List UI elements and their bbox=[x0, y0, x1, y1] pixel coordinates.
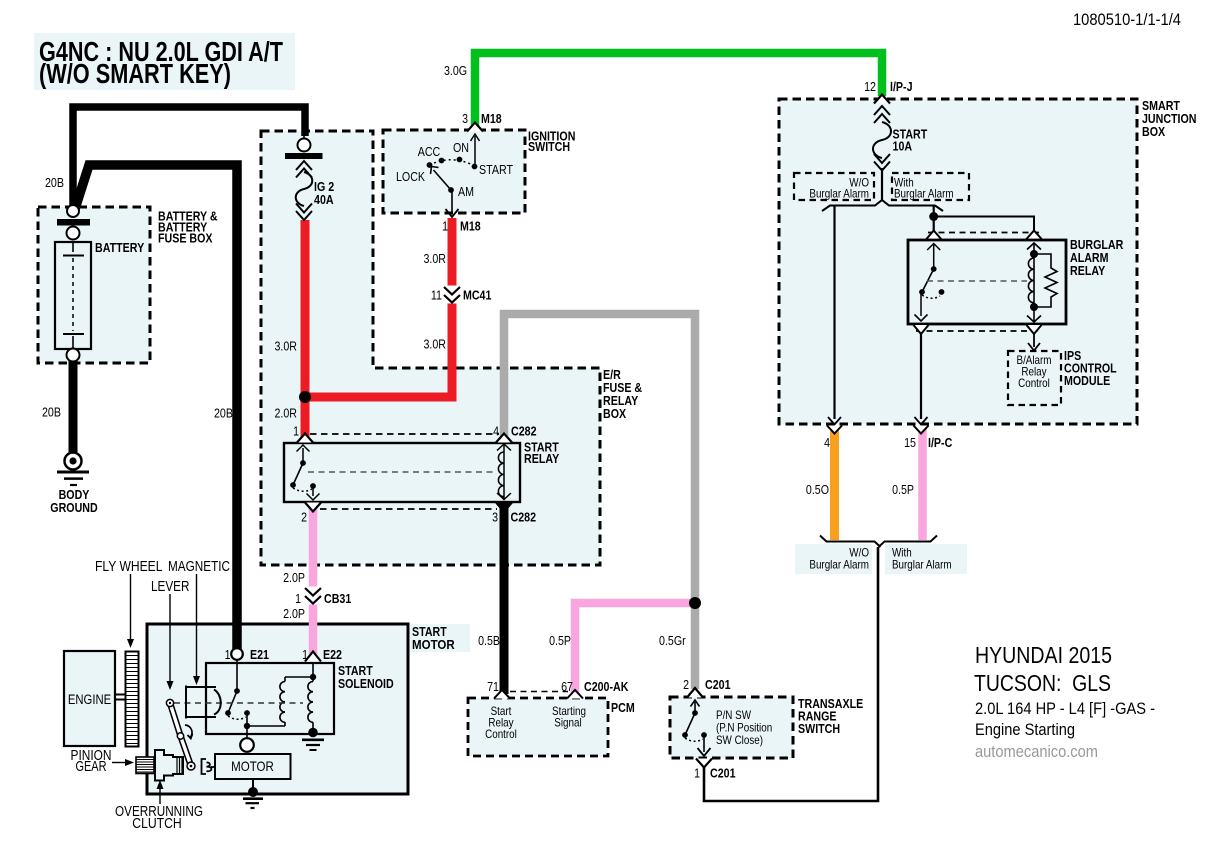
svg-text:C201: C201 bbox=[705, 677, 731, 692]
svg-text:1: 1 bbox=[694, 766, 700, 781]
svg-text:1: 1 bbox=[302, 647, 308, 662]
engine shaft lines bbox=[115, 695, 126, 700]
wire 0.5P pink junction to PCM pin 67 bbox=[575, 603, 695, 694]
svg-text:20B: 20B bbox=[214, 406, 233, 421]
wire 0.5O orange SJB pin4 bbox=[830, 428, 839, 540]
svg-text:4: 4 bbox=[493, 424, 499, 439]
svg-text:RELAY: RELAY bbox=[1070, 263, 1105, 278]
svg-text:M18: M18 bbox=[481, 111, 502, 126]
svg-text:GEAR: GEAR bbox=[76, 759, 107, 775]
label arrow lever bbox=[167, 594, 174, 690]
svg-text:3: 3 bbox=[462, 111, 468, 126]
SJB left branch wire to pin 4 bbox=[833, 206, 835, 420]
start motor pin E22 chevron bbox=[305, 652, 321, 662]
svg-text:12: 12 bbox=[864, 79, 876, 94]
svg-text:MOTOR: MOTOR bbox=[412, 637, 455, 652]
smart junction box bbox=[779, 99, 1137, 424]
lever rod bbox=[166, 699, 195, 770]
burglar alarm relay pin chevron left upper bbox=[926, 231, 942, 240]
svg-text:2: 2 bbox=[301, 510, 307, 525]
svg-text:Burglar Alarm: Burglar Alarm bbox=[894, 187, 954, 201]
label arrow pinion gear bbox=[112, 759, 134, 766]
SJB With burglar alarm dashed box bbox=[892, 173, 969, 200]
svg-text:C282: C282 bbox=[511, 510, 537, 525]
svg-text:3.0R: 3.0R bbox=[424, 251, 447, 266]
burglar alarm relay switch bbox=[915, 244, 945, 322]
wire 3.0R red ignition AM down to junction bbox=[448, 218, 457, 401]
svg-text:E22: E22 bbox=[323, 647, 342, 662]
start relay C282 upper connector dashed line bbox=[310, 433, 499, 435]
svg-text:Control: Control bbox=[1018, 376, 1050, 390]
burglar alarm relay coil bbox=[1027, 243, 1041, 322]
motor terminal circle bbox=[240, 738, 254, 752]
svg-text:(W/O SMART KEY): (W/O SMART KEY) bbox=[39, 58, 231, 89]
svg-text:0.5P: 0.5P bbox=[892, 482, 914, 497]
start relay C282 lower connector dashed line bbox=[320, 508, 497, 510]
svg-text:0.5P: 0.5P bbox=[549, 633, 571, 648]
svg-text:3.0R: 3.0R bbox=[424, 337, 447, 352]
SJB branch split shelves bbox=[822, 200, 943, 211]
svg-text:10A: 10A bbox=[893, 139, 913, 154]
svg-text:Control: Control bbox=[485, 727, 517, 741]
burglar alarm relay mechanical link dashed bbox=[927, 280, 1027, 282]
svg-text:3.0G: 3.0G bbox=[444, 63, 467, 78]
overrunning clutch body bbox=[155, 750, 183, 781]
fuse IG 2 40A terminal circle bbox=[298, 131, 311, 152]
battery top terminal circle bbox=[67, 205, 79, 217]
battery BATTERY box bbox=[55, 242, 91, 349]
svg-text:FUSE BOX: FUSE BOX bbox=[158, 230, 213, 245]
svg-text:2.0P: 2.0P bbox=[283, 606, 305, 621]
svg-text:MOTOR: MOTOR bbox=[231, 758, 274, 774]
svg-text:E21: E21 bbox=[250, 647, 269, 662]
svg-text:11: 11 bbox=[431, 288, 442, 303]
start relay pin 3 black chevron bbox=[496, 503, 512, 513]
wire 20B battery to IG2 fuse bbox=[73, 107, 305, 216]
battery cell symbol bbox=[63, 243, 84, 348]
burglar alarm relay resistor bbox=[1034, 254, 1057, 307]
SJB pin 4 chevron bbox=[827, 426, 842, 434]
start solenoid switch bbox=[225, 660, 250, 738]
burglar alarm relay connector dashed upper bbox=[928, 232, 1040, 234]
svg-text:0.5O: 0.5O bbox=[806, 482, 829, 497]
ignition switch contact dot ON bbox=[457, 157, 463, 163]
start relay mechanical link dashed bbox=[308, 471, 497, 473]
wire 3.0G green ignition to smart junction box bbox=[475, 53, 882, 127]
PCM C200-AK connector dashed line bbox=[510, 691, 568, 693]
PCM pin 67 chevron bbox=[567, 690, 583, 699]
start solenoid hold-in coil bbox=[308, 662, 313, 730]
transaxle pin 1 chevron bbox=[696, 759, 712, 768]
svg-text:Burglar Alarm: Burglar Alarm bbox=[892, 558, 952, 572]
wire 0.5B black start relay pin3 to PCM pin 71 bbox=[500, 508, 509, 694]
SJB wire fuse to split bbox=[881, 168, 883, 200]
svg-text:SOLENOID: SOLENOID bbox=[338, 676, 394, 691]
svg-text:20B: 20B bbox=[45, 175, 64, 190]
battery & battery fuse box bbox=[38, 207, 150, 363]
ignition switch box bbox=[383, 130, 525, 213]
burglar alarm relay pin chevron right upper bbox=[1026, 231, 1042, 240]
ignition switch contact dot AM bbox=[448, 187, 454, 193]
svg-text:GROUND: GROUND bbox=[50, 500, 97, 515]
svg-text:MC41: MC41 bbox=[463, 288, 491, 303]
svg-text:40A: 40A bbox=[314, 192, 334, 207]
node junction dot red bbox=[299, 391, 311, 403]
lever rotation arrow bbox=[185, 725, 193, 739]
svg-text:HYUNDAI 2015: HYUNDAI 2015 bbox=[975, 642, 1112, 668]
title highlight bbox=[34, 33, 295, 90]
svg-text:START: START bbox=[479, 162, 513, 177]
svg-text:C201: C201 bbox=[710, 766, 736, 781]
svg-text:SWITCH: SWITCH bbox=[798, 721, 840, 736]
start relay switch bbox=[290, 445, 319, 500]
wire 0.5P pink SJB pin15 I/P-C bbox=[918, 428, 927, 540]
fuse IG 2 upper double chevron bbox=[296, 161, 312, 178]
svg-text:FLY WHEEL: FLY WHEEL bbox=[95, 559, 163, 575]
pinion gear bbox=[136, 757, 154, 774]
svg-text:2.0R: 2.0R bbox=[275, 406, 298, 421]
svg-text:I/P-C: I/P-C bbox=[928, 435, 953, 450]
svg-text:1: 1 bbox=[442, 219, 448, 234]
svg-text:3: 3 bbox=[492, 510, 498, 525]
svg-text:2: 2 bbox=[683, 677, 689, 692]
svg-text:BOX: BOX bbox=[1142, 124, 1165, 139]
svg-text:1080510-1/1-1/4: 1080510-1/1-1/4 bbox=[1073, 10, 1181, 29]
IPS control module dashed box bbox=[1008, 351, 1061, 405]
start motor box bbox=[147, 624, 408, 794]
ignition switch contact dot ACC bbox=[439, 158, 445, 164]
motor box bbox=[215, 754, 291, 779]
transaxle pin 2 chevron bbox=[687, 688, 703, 698]
wire 2.0P pink start relay pin2 to E22 bbox=[309, 505, 318, 654]
svg-text:71: 71 bbox=[487, 679, 499, 694]
ignition switch rotary arc bbox=[430, 160, 475, 166]
start relay pin 4 chevron bbox=[496, 434, 512, 443]
svg-text:LOCK: LOCK bbox=[396, 169, 425, 184]
node junction dot gray/pink bbox=[689, 597, 701, 609]
start relay coil bbox=[497, 444, 511, 500]
burglar alarm relay box bbox=[908, 240, 1066, 324]
svg-text:Signal: Signal bbox=[554, 716, 581, 730]
connector CB31 double chevron bbox=[305, 587, 321, 605]
start motor pin E21 circle bbox=[231, 648, 243, 660]
svg-text:Burglar Alarm: Burglar Alarm bbox=[809, 187, 869, 201]
SJB pin 12 chevron bbox=[874, 95, 890, 104]
burglar alarm relay pin chevron right lower bbox=[1027, 325, 1042, 334]
start solenoid pull-in coil bbox=[247, 677, 313, 726]
svg-text:4: 4 bbox=[824, 435, 830, 450]
flywheel gear bbox=[126, 652, 139, 747]
wire 0.5Gr gray start relay pin4 to transaxle bbox=[504, 314, 695, 689]
SJB wire dot to coil branch bbox=[934, 217, 1034, 235]
svg-text:SWITCH: SWITCH bbox=[528, 139, 570, 154]
ignition switch contact dot START bbox=[472, 164, 478, 170]
svg-text:RELAY: RELAY bbox=[524, 451, 559, 466]
merge bracket With burglar alarm bbox=[879, 536, 938, 548]
svg-text:automecanico.com: automecanico.com bbox=[975, 742, 1098, 761]
svg-text:Burglar Alarm: Burglar Alarm bbox=[809, 558, 869, 572]
wire 3.0R red IG2 fuse down to start relay pin 1 bbox=[301, 220, 310, 437]
svg-text:2.0L 164 HP - L4 [F] -GAS -: 2.0L 164 HP - L4 [F] -GAS - bbox=[975, 699, 1155, 718]
start solenoid ground bbox=[302, 728, 324, 750]
start solenoid coil junction dot bbox=[310, 674, 316, 680]
svg-text:BOX: BOX bbox=[603, 406, 626, 421]
start solenoid box bbox=[206, 663, 334, 734]
battery bottom terminal circle bbox=[67, 349, 80, 362]
wire 20B battery to start motor E21 bbox=[74, 165, 237, 650]
svg-text:CB31: CB31 bbox=[324, 591, 351, 606]
wire coil to IPS module bbox=[1028, 333, 1040, 351]
SJB arrow at pin 15 bbox=[915, 417, 928, 425]
body ground symbol bbox=[57, 453, 89, 486]
svg-text:CLUTCH: CLUTCH bbox=[132, 816, 182, 832]
PCM pin 71 chevron bbox=[494, 690, 510, 699]
transaxle P/N switch bbox=[682, 700, 710, 756]
wire 20B battery to body ground bbox=[69, 360, 78, 454]
svg-text:67: 67 bbox=[561, 679, 573, 694]
svg-text:1: 1 bbox=[295, 591, 301, 606]
node SJB branch dot bbox=[929, 212, 938, 221]
fuse START 10A lower double chevron bbox=[874, 154, 890, 171]
ignition switch arrow to pin 3 bbox=[471, 134, 480, 167]
label arrow magnetic bbox=[193, 574, 200, 685]
svg-text:BATTERY: BATTERY bbox=[95, 240, 144, 255]
svg-text:C200-AK: C200-AK bbox=[584, 679, 629, 694]
svg-text:SW Close): SW Close) bbox=[716, 733, 763, 747]
svg-text:I/P-J: I/P-J bbox=[890, 79, 913, 94]
svg-text:ON: ON bbox=[453, 140, 469, 155]
SJB pin 15 chevron bbox=[914, 426, 929, 434]
svg-text:3.0R: 3.0R bbox=[275, 339, 298, 354]
label start motor bbox=[410, 624, 470, 652]
ignition switch contact dot LOCK bbox=[427, 162, 433, 168]
wire transaxle C201 to burglar alarm merge bbox=[704, 547, 878, 801]
SJB right branch wire bbox=[933, 206, 935, 235]
svg-text:MAGNETIC: MAGNETIC bbox=[168, 559, 230, 575]
svg-text:1: 1 bbox=[293, 424, 299, 439]
battery terminal bar bbox=[57, 219, 90, 226]
svg-text:LEVER: LEVER bbox=[151, 579, 190, 595]
connector MC41 double chevron bbox=[444, 286, 460, 304]
label arrow fly wheel bbox=[127, 574, 134, 648]
svg-text:15: 15 bbox=[904, 435, 916, 450]
merge bracket W/O burglar alarm bbox=[820, 536, 881, 548]
svg-text:ENGINE: ENGINE bbox=[68, 692, 111, 707]
fuse IG 2 bar bbox=[285, 153, 323, 159]
svg-text:0.5B: 0.5B bbox=[478, 633, 500, 648]
svg-text:TUCSON: GLS: TUCSON: GLS bbox=[974, 670, 1111, 696]
motor ground bbox=[243, 779, 263, 808]
ignition switch AM output arrow bbox=[446, 192, 459, 217]
transaxle range switch box bbox=[670, 697, 793, 758]
E/R fuse & relay box bbox=[261, 131, 600, 565]
svg-text:0.5Gr: 0.5Gr bbox=[659, 633, 686, 648]
burglar alarm relay connector dashed lower bbox=[916, 330, 1040, 332]
fuse START 10A upper double chevron bbox=[874, 106, 890, 123]
burglar alarm relay coil dots bbox=[1030, 250, 1038, 258]
fuse IG 2 lower double chevron bbox=[296, 204, 312, 221]
solenoid mechanical link dashed bbox=[174, 702, 303, 704]
wire 3.0R red horizontal junction segment bbox=[301, 393, 457, 402]
svg-text:PCM: PCM bbox=[611, 700, 635, 715]
label arrow overrunning clutch bbox=[157, 780, 164, 804]
svg-text:Engine Starting: Engine Starting bbox=[975, 720, 1075, 739]
ignition switch pin 3 chevron bbox=[467, 123, 483, 132]
fuse IG 2 element bbox=[296, 172, 313, 206]
start relay pin 1 chevron bbox=[297, 434, 313, 443]
battery second terminal circle bbox=[67, 227, 80, 240]
fuse START 10A element bbox=[873, 122, 891, 158]
SJB left branch arrow at pin 4 bbox=[828, 417, 841, 425]
svg-text:MODULE: MODULE bbox=[1064, 373, 1110, 388]
SJB W/O burglar alarm dashed box bbox=[794, 173, 874, 200]
engine box bbox=[64, 651, 115, 746]
svg-text:M18: M18 bbox=[460, 219, 481, 234]
svg-text:20B: 20B bbox=[42, 405, 61, 420]
ignition switch rotor arm AM to LOCK bbox=[431, 167, 452, 191]
brush contact bracket bbox=[202, 759, 216, 774]
start relay pin 2 chevron bbox=[305, 503, 321, 512]
magnetic plunger bracket bbox=[186, 686, 221, 719]
PCM box bbox=[468, 698, 608, 756]
svg-text:AM: AM bbox=[458, 184, 474, 199]
SJB wire relay to pin 15 bbox=[920, 333, 922, 419]
svg-text:1: 1 bbox=[225, 647, 231, 662]
merge labels highlight bbox=[795, 544, 872, 574]
burglar alarm relay pin chevron left lower bbox=[914, 325, 929, 334]
svg-text:2.0P: 2.0P bbox=[283, 570, 305, 585]
svg-text:C282: C282 bbox=[511, 424, 537, 439]
svg-text:ACC: ACC bbox=[418, 144, 441, 159]
start relay box bbox=[284, 443, 520, 502]
